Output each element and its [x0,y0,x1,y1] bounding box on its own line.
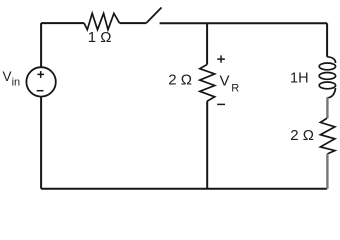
source plus sign [37,71,44,78]
wire right branch bottom gray [326,154,328,189]
inductor L1 loop 2 [319,73,335,80]
svg-text:1 Ω: 1 Ω [88,29,112,46]
svg-text:V: V [3,69,12,84]
svg-text:R: R [231,82,239,94]
wire right branch top [326,23,328,57]
inductor L1 bottom hook [327,88,335,98]
wire top-left horizontal [41,22,84,24]
plus sign VR polarity [217,55,225,62]
inductor L1 top hook [327,57,335,63]
svg-text:1H: 1H [290,71,309,87]
svg-text:in: in [12,77,21,89]
source V1 circle [26,67,55,96]
wire middle branch top [206,23,208,64]
wire left vertical bottom [40,97,42,189]
svg-text:V: V [220,73,230,90]
wire middle branch bottom [206,101,208,189]
wire switch contact to top-right corner [160,22,328,24]
minus sign VR polarity [217,103,225,105]
wire inductor to resistor gray [326,97,328,118]
inductor L1 loop 3 [319,82,335,89]
wire bottom horizontal [41,188,327,190]
resistor R1 1ohm zigzag [84,13,119,29]
resistor R2 2ohm zigzag [200,65,215,102]
svg-text:2 Ω: 2 Ω [290,127,314,144]
inductor L1 loop 1 [319,63,335,70]
wire resistor to switch [120,22,147,24]
resistor R3 2ohm zigzag [320,118,335,154]
source minus sign [37,90,44,92]
switch S1 blade [146,8,161,24]
svg-text:2 Ω: 2 Ω [168,72,192,89]
wire left vertical top [40,23,42,67]
